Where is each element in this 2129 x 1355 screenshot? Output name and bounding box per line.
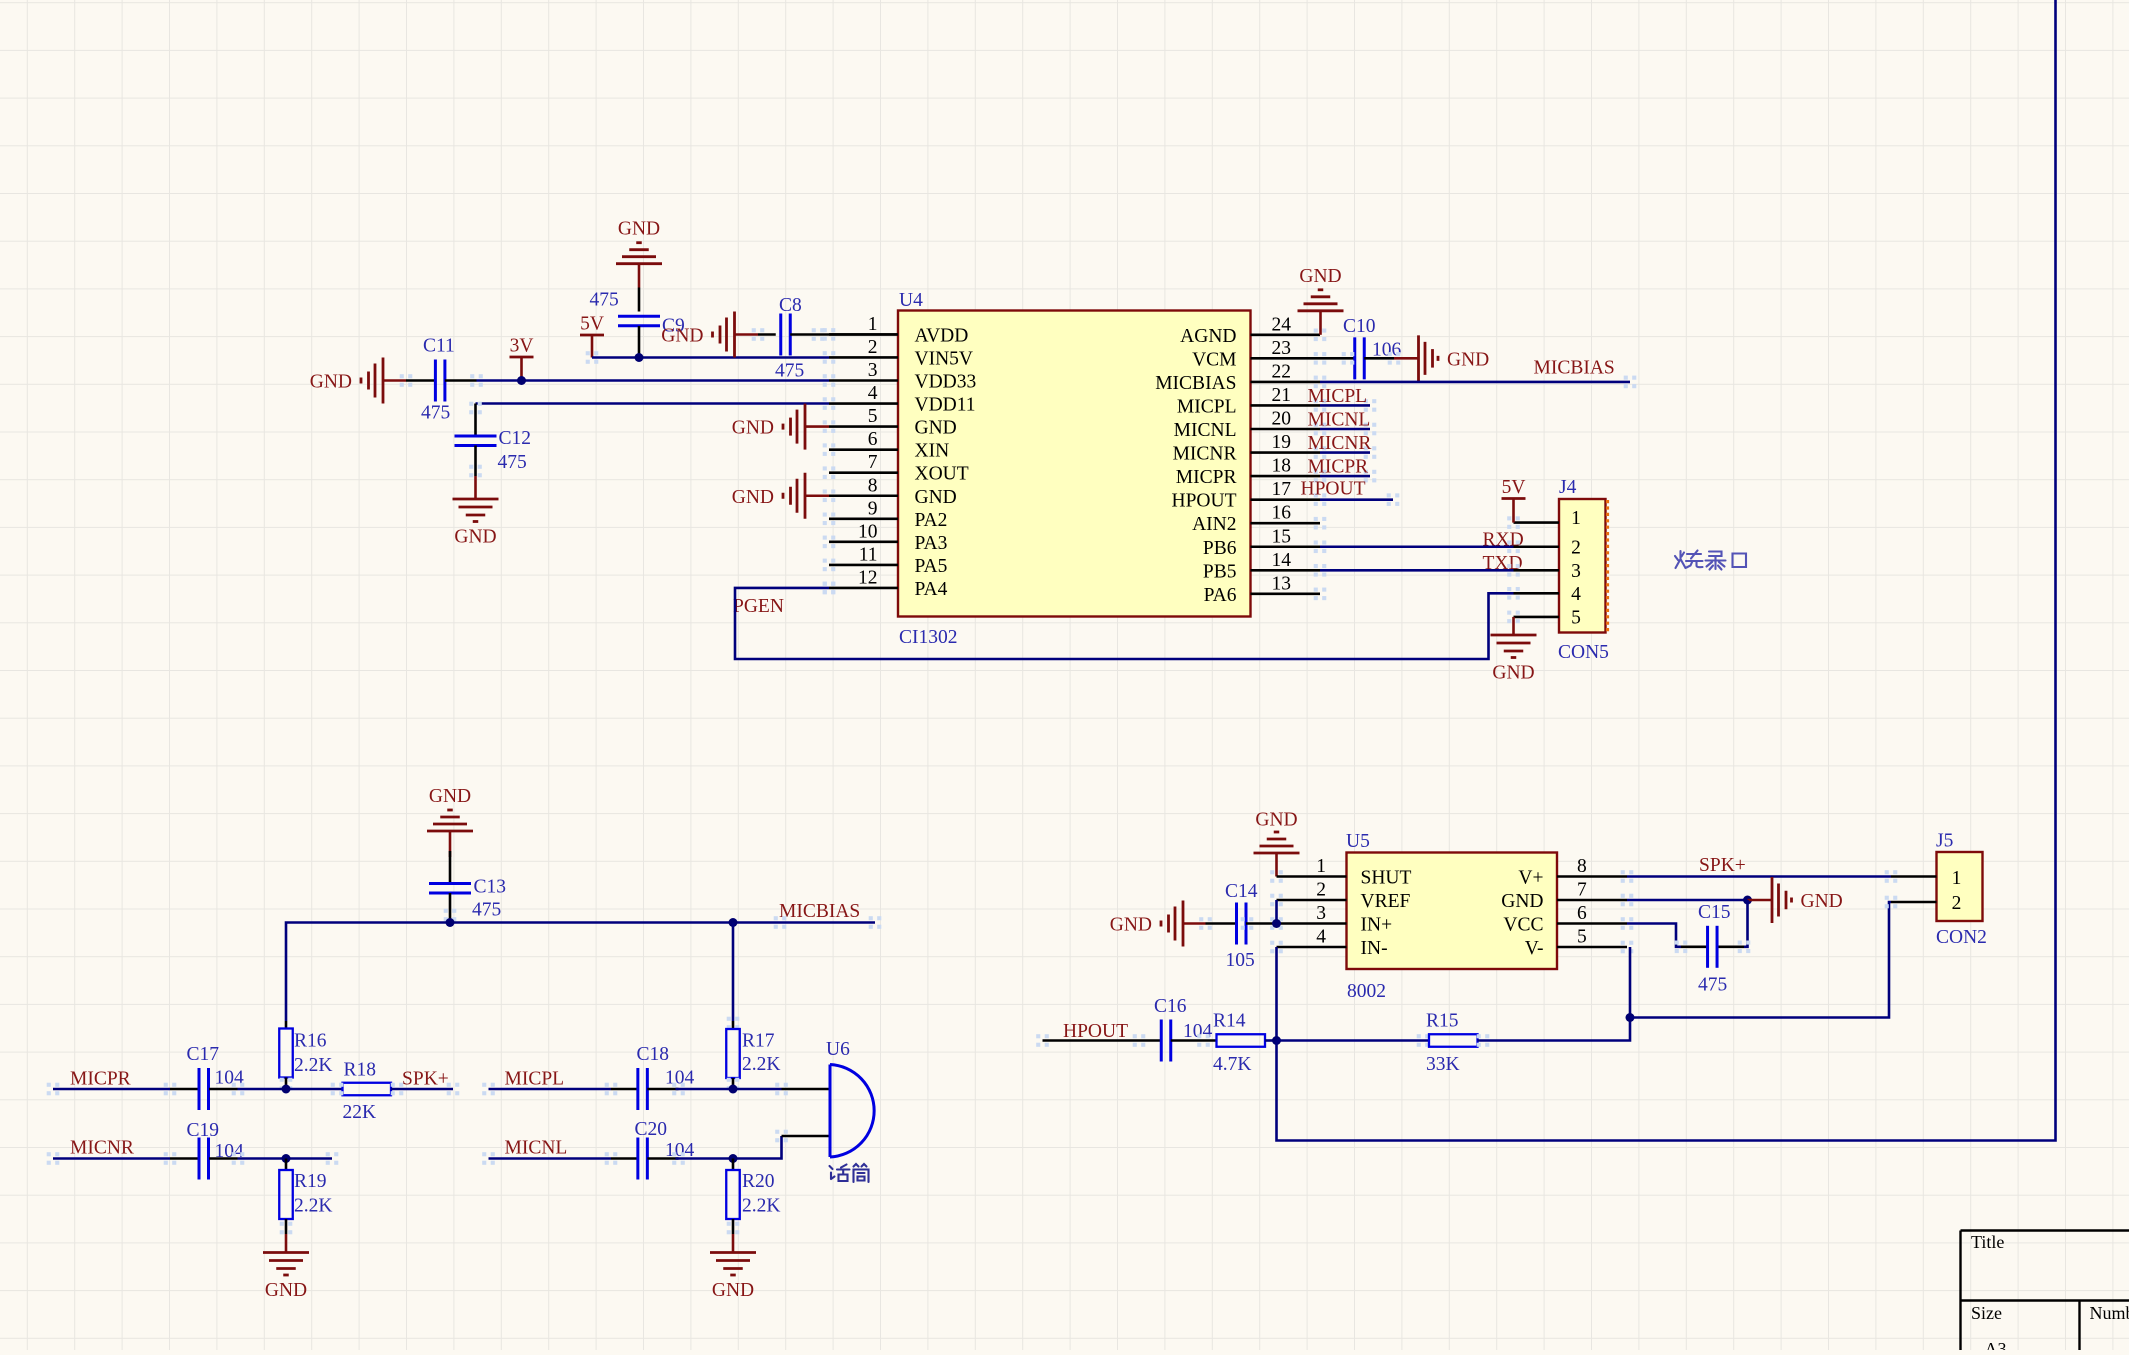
svg-text:MICNL: MICNL	[1174, 420, 1237, 441]
svg-text:GND: GND	[732, 418, 774, 439]
wire GND node to C15	[1717, 900, 1747, 947]
wire C16 to R14	[1171, 1034, 1217, 1047]
svg-text:475: 475	[775, 361, 804, 382]
svg-text:CI1302: CI1302	[899, 627, 958, 648]
ground GND (below C12)	[453, 476, 499, 548]
svg-text:VIN5V: VIN5V	[915, 348, 974, 369]
svg-text:7: 7	[868, 452, 878, 473]
svg-text:MICNR: MICNR	[70, 1138, 134, 1159]
svg-text:MICNL: MICNL	[1308, 410, 1371, 431]
ground GND (U4 pin5)	[732, 404, 829, 450]
junction MICNL/R20	[729, 1154, 738, 1163]
svg-text:CON5: CON5	[1558, 642, 1609, 663]
net label HPOUT (U4)	[1301, 479, 1366, 500]
net label MICPL	[1308, 386, 1368, 407]
svg-text:HPOUT: HPOUT	[1171, 491, 1236, 512]
svg-text:VCM: VCM	[1192, 349, 1236, 370]
svg-text:GND: GND	[1501, 891, 1543, 912]
svg-text:PGEN: PGEN	[733, 596, 784, 617]
svg-text:2: 2	[1952, 893, 1962, 914]
wire GND net (U5 pin7)	[1627, 899, 1748, 902]
text U6 comment (hanzi)	[830, 1164, 869, 1182]
wire R19 to ground	[280, 1219, 293, 1234]
svg-text:2.2K: 2.2K	[294, 1055, 332, 1076]
wire R17 to MICPL	[727, 1078, 740, 1091]
svg-text:AGND: AGND	[1180, 326, 1236, 347]
ground GND (U4 pin8)	[732, 473, 829, 519]
wire R14 to junction	[1265, 1039, 1277, 1042]
svg-text:GND: GND	[454, 527, 496, 548]
power port 5V (C9 rail)	[580, 314, 604, 358]
svg-text:GND: GND	[1110, 915, 1152, 936]
wire V+ to SPK+	[1627, 875, 1891, 878]
wire C8 to U4 pin1	[752, 328, 898, 341]
svg-text:5V: 5V	[580, 314, 604, 335]
junction U5 GND node	[1743, 896, 1752, 905]
wire MICNR	[47, 1152, 199, 1165]
svg-text:GND: GND	[915, 487, 957, 508]
svg-text:R19: R19	[294, 1171, 327, 1192]
svg-text:13: 13	[1272, 573, 1292, 594]
wire C14 to IN+	[1199, 917, 1276, 930]
svg-text:V+: V+	[1518, 868, 1543, 889]
svg-text:3V: 3V	[510, 336, 534, 357]
capacitor C11	[421, 336, 455, 424]
connector J5 CON2 body	[1936, 831, 1987, 949]
svg-text:GND: GND	[661, 326, 703, 347]
svg-text:2.2K: 2.2K	[742, 1196, 780, 1217]
svg-text:C19: C19	[187, 1120, 220, 1141]
svg-text:PA3: PA3	[915, 533, 948, 554]
svg-text:C18: C18	[637, 1044, 670, 1065]
ground GND (C8 left)	[661, 312, 758, 358]
svg-text:MICPR: MICPR	[1308, 457, 1369, 478]
svg-text:Size: Size	[1971, 1303, 2002, 1323]
capacitor C10	[1343, 316, 1402, 379]
resistor R14	[1213, 1011, 1265, 1076]
wire PGEN net	[735, 582, 1514, 659]
svg-text:GND: GND	[265, 1280, 307, 1301]
svg-text:7: 7	[1577, 880, 1587, 901]
svg-text:MICPL: MICPL	[1177, 396, 1237, 417]
svg-text:PA4: PA4	[915, 579, 948, 600]
net label MICPL	[505, 1069, 565, 1090]
svg-text:19: 19	[1272, 432, 1292, 453]
svg-text:10: 10	[858, 521, 878, 542]
svg-text:IN-: IN-	[1361, 938, 1388, 959]
junction IN+ node	[1272, 919, 1281, 928]
svg-text:4: 4	[1316, 927, 1326, 948]
svg-text:R18: R18	[344, 1060, 377, 1081]
svg-text:15: 15	[1272, 526, 1292, 547]
svg-text:8: 8	[1577, 856, 1587, 877]
svg-text:9: 9	[868, 498, 878, 519]
wire C18 to U6	[647, 1083, 781, 1096]
svg-text:HPOUT: HPOUT	[1301, 479, 1366, 500]
ground GND (AGND pin24)	[1298, 266, 1344, 335]
svg-text:GND: GND	[429, 786, 471, 807]
svg-text:MICNR: MICNR	[1173, 444, 1237, 465]
svg-text:4: 4	[868, 383, 878, 404]
wire junction to R15	[1277, 1034, 1430, 1047]
wire TXD net	[1320, 569, 1514, 572]
op-amp U4 CI1302 body	[898, 290, 1251, 648]
resistor R19	[279, 1159, 332, 1220]
svg-text:R16: R16	[294, 1031, 327, 1052]
svg-text:23: 23	[1272, 338, 1292, 359]
svg-text:MICPL: MICPL	[1308, 386, 1368, 407]
resistor R16	[279, 1029, 332, 1078]
capacitor C14	[1225, 881, 1258, 971]
wire rail to R17	[727, 923, 740, 1030]
svg-text:22K: 22K	[343, 1102, 377, 1123]
power port 3V	[510, 336, 534, 381]
wire C12 to ground	[469, 446, 482, 478]
svg-text:AVDD: AVDD	[915, 325, 969, 346]
svg-text:1: 1	[1952, 868, 1962, 889]
junction R17-rail	[729, 918, 738, 927]
capacitor C8	[775, 295, 804, 382]
wire C11 to U4 pin3	[400, 374, 829, 387]
wire IN- net vertical	[1275, 947, 1278, 1041]
net label MICPR	[70, 1069, 131, 1090]
svg-text:PB5: PB5	[1203, 561, 1237, 582]
svg-text:CON2: CON2	[1936, 927, 1987, 948]
svg-text:SPK+: SPK+	[402, 1069, 449, 1090]
ground GND (below R20)	[710, 1234, 756, 1301]
wire R15 to V- riser	[1477, 947, 1630, 1047]
capacitor C15	[1698, 902, 1731, 996]
svg-text:11: 11	[859, 544, 878, 565]
svg-text:VREF: VREF	[1361, 891, 1411, 912]
svg-text:MICPL: MICPL	[505, 1069, 565, 1090]
svg-text:GND: GND	[1801, 891, 1843, 912]
ground GND (above C13)	[427, 786, 473, 884]
pin U6 input 2	[775, 1130, 830, 1143]
wire 5V rail to U4 pin2	[586, 351, 829, 364]
svg-text:2.2K: 2.2K	[742, 1054, 780, 1075]
microphone U6 body	[826, 1039, 874, 1157]
wire C17 to junction	[209, 1083, 343, 1096]
ground GND (right of C10)	[1394, 335, 1489, 381]
svg-text:1: 1	[868, 314, 878, 335]
junction V- feedback	[1626, 1013, 1635, 1022]
svg-text:A3: A3	[1985, 1339, 2007, 1350]
U5 left pins 1-4	[1270, 856, 1411, 959]
capacitor C19	[187, 1120, 245, 1180]
svg-text:20: 20	[1272, 409, 1292, 430]
svg-text:17: 17	[1272, 479, 1292, 500]
svg-text:V-: V-	[1525, 938, 1544, 959]
wire MICBIAS net	[1320, 376, 1636, 389]
svg-text:GND: GND	[1255, 810, 1297, 831]
svg-text:4.7K: 4.7K	[1213, 1054, 1251, 1075]
svg-text:2: 2	[1316, 880, 1326, 901]
svg-text:VDD33: VDD33	[915, 372, 977, 393]
wire RXD net	[1320, 545, 1514, 548]
svg-text:2.2K: 2.2K	[294, 1196, 332, 1217]
junction MICPR/R16	[282, 1085, 291, 1094]
svg-text:MICNR: MICNR	[1308, 433, 1372, 454]
svg-text:MICPR: MICPR	[1176, 467, 1237, 488]
J5 pin 1	[1885, 870, 1937, 883]
svg-text:C14: C14	[1225, 881, 1258, 902]
svg-text:5: 5	[868, 406, 878, 427]
svg-text:PB6: PB6	[1203, 538, 1237, 559]
junction C13-rail	[446, 918, 455, 927]
resistor R15	[1426, 1011, 1478, 1076]
wire MICNL net	[1320, 423, 1376, 436]
net label MICNR	[1308, 433, 1372, 454]
svg-text:AIN2: AIN2	[1192, 514, 1236, 535]
svg-text:21: 21	[1272, 385, 1292, 406]
svg-text:VCC: VCC	[1503, 915, 1543, 936]
svg-text:PA5: PA5	[915, 556, 948, 577]
svg-text:18: 18	[1272, 456, 1292, 477]
svg-text:MICPR: MICPR	[70, 1069, 131, 1090]
svg-text:SHUT: SHUT	[1361, 868, 1412, 889]
svg-text:GND: GND	[732, 487, 774, 508]
ground GND (below R19)	[263, 1234, 309, 1301]
U4 left pins 1-12	[823, 314, 977, 600]
svg-text:MICBIAS: MICBIAS	[1155, 373, 1236, 394]
title block	[1961, 1231, 2129, 1355]
svg-text:C12: C12	[499, 428, 532, 449]
net label MICNL	[505, 1138, 568, 1159]
svg-text:24: 24	[1272, 314, 1292, 335]
net label RXD	[1483, 530, 1524, 551]
ground GND (C11 left)	[310, 358, 406, 404]
capacitor C12	[455, 428, 532, 473]
svg-text:MICBIAS: MICBIAS	[1534, 358, 1615, 379]
svg-text:105: 105	[1226, 950, 1255, 971]
junction at C9/5V rail	[635, 353, 644, 362]
svg-text:475: 475	[498, 452, 527, 473]
svg-text:5V: 5V	[1502, 477, 1526, 498]
svg-text:C11: C11	[423, 336, 455, 357]
wire VCM to C10	[1320, 357, 1355, 360]
svg-text:2: 2	[868, 337, 878, 358]
capacitor C18	[637, 1044, 695, 1110]
text port label (hanzi)	[1675, 551, 1746, 570]
svg-text:R14: R14	[1213, 1011, 1246, 1032]
svg-text:C15: C15	[1698, 902, 1731, 923]
svg-text:MICNL: MICNL	[505, 1138, 568, 1159]
svg-text:C8: C8	[779, 295, 802, 316]
net label MICBIAS	[1534, 358, 1615, 379]
svg-text:C13: C13	[474, 877, 507, 898]
wire C10 to ground	[1342, 352, 1401, 365]
J4 pins 1-5	[1507, 516, 1559, 623]
wire VREF to IN+	[1275, 900, 1278, 924]
svg-text:GND: GND	[310, 372, 352, 393]
svg-text:Number: Number	[2090, 1303, 2129, 1323]
svg-text:22: 22	[1272, 361, 1292, 382]
ground GND (C14 left)	[1110, 901, 1206, 947]
svg-text:GND: GND	[1492, 663, 1534, 684]
wire C8 left	[758, 333, 776, 336]
svg-text:2: 2	[1571, 537, 1581, 558]
capacitor C17	[187, 1044, 245, 1110]
capacitor C20	[635, 1119, 695, 1180]
svg-text:16: 16	[1272, 503, 1292, 524]
U5 right pins 8-5	[1501, 856, 1633, 959]
wire R20 to ground	[727, 1219, 740, 1234]
svg-text:SPK+: SPK+	[1699, 855, 1746, 876]
wire R18 to SPK+	[331, 1083, 460, 1096]
svg-text:XOUT: XOUT	[915, 464, 969, 485]
wire GND to C14	[1206, 922, 1237, 925]
resistor R18	[343, 1060, 392, 1124]
svg-text:C20: C20	[635, 1119, 668, 1140]
svg-text:475: 475	[472, 900, 501, 921]
wire HPOUT net (U4)	[1320, 493, 1399, 506]
svg-text:J4: J4	[1559, 477, 1577, 498]
svg-text:GND: GND	[1299, 266, 1341, 287]
svg-text:475: 475	[589, 290, 618, 311]
wire C13 to MICBIAS rail	[444, 893, 457, 923]
wire MICPR	[47, 1083, 199, 1096]
wire feedback to J5 pin2	[1630, 902, 1891, 1018]
ground GND (right of U5)	[1748, 877, 1843, 923]
wire IN- to bottom rail	[1277, 0, 2056, 1141]
svg-text:R17: R17	[742, 1031, 775, 1052]
svg-text:104: 104	[665, 1068, 695, 1089]
wire MICNL	[482, 1152, 638, 1165]
resistor R17	[726, 1029, 780, 1078]
ground GND (top of C9)	[616, 219, 662, 312]
net label MICNL	[1308, 410, 1371, 431]
svg-text:U6: U6	[826, 1039, 850, 1060]
net label TXD	[1483, 553, 1523, 574]
wire C15 right stub	[1738, 941, 1751, 954]
svg-text:1: 1	[1571, 508, 1581, 529]
wire C20 to U6 elbow	[647, 1136, 781, 1165]
svg-text:GND: GND	[712, 1280, 754, 1301]
svg-text:IN+: IN+	[1361, 915, 1393, 936]
svg-text:MICBIAS: MICBIAS	[779, 901, 860, 922]
svg-text:GND: GND	[1447, 349, 1489, 370]
svg-text:C16: C16	[1154, 996, 1187, 1017]
J5 pin 2	[1885, 896, 1937, 909]
svg-text:475: 475	[1698, 975, 1727, 996]
wire VDD11 net	[469, 402, 829, 436]
wire MICPL net	[1320, 399, 1376, 412]
svg-text:HPOUT: HPOUT	[1063, 1021, 1128, 1042]
ground GND (J4 pin5)	[1491, 617, 1537, 684]
net label SPK+ (R18)	[402, 1069, 449, 1090]
wire MICBIAS rail	[286, 916, 881, 1028]
svg-text:14: 14	[1272, 550, 1292, 571]
svg-text:3: 3	[1316, 903, 1326, 924]
junction MICPL/R17	[729, 1085, 738, 1094]
wire VCC to C15	[1627, 924, 1708, 954]
amplifier U5 8002 body	[1346, 831, 1557, 1002]
wire MICPL	[482, 1083, 638, 1096]
wire R16 to MICPR	[280, 1078, 293, 1091]
wire MICPR net	[1320, 470, 1376, 483]
svg-text:PA2: PA2	[915, 510, 948, 531]
svg-text:6: 6	[868, 429, 878, 450]
svg-text:8002: 8002	[1347, 981, 1386, 1002]
net label MICNR	[70, 1138, 134, 1159]
capacitor C16	[1154, 996, 1213, 1062]
svg-text:6: 6	[1577, 903, 1587, 924]
net label HPOUT (bottom)	[1063, 1021, 1128, 1042]
net label PGEN	[733, 596, 784, 617]
svg-text:3: 3	[868, 360, 878, 381]
wire GND to C11	[406, 379, 435, 382]
svg-text:R20: R20	[742, 1171, 775, 1192]
svg-text:1: 1	[1316, 856, 1326, 877]
svg-text:8: 8	[868, 475, 878, 496]
svg-text:4: 4	[1571, 584, 1581, 605]
svg-text:U5: U5	[1346, 831, 1370, 852]
svg-text:GND: GND	[618, 219, 660, 240]
net label SPK+ (V+)	[1699, 855, 1746, 876]
svg-text:U4: U4	[899, 290, 923, 311]
U4 right pins 24-13	[1155, 314, 1326, 606]
junction 3V on VDD33 net	[517, 376, 526, 385]
wire HPOUT to C16	[1036, 1034, 1161, 1047]
svg-text:5: 5	[1571, 607, 1581, 628]
svg-text:12: 12	[858, 567, 878, 588]
svg-text:475: 475	[421, 403, 450, 424]
svg-text:104: 104	[1183, 1021, 1213, 1042]
svg-text:VDD11: VDD11	[915, 395, 976, 416]
svg-text:3: 3	[1571, 561, 1581, 582]
svg-text:C17: C17	[187, 1044, 220, 1065]
svg-text:R15: R15	[1426, 1011, 1459, 1032]
svg-text:PA6: PA6	[1204, 585, 1237, 606]
wire MICNR net	[1320, 446, 1376, 459]
ground GND (U5 pin1)	[1254, 810, 1300, 877]
junction MICNR/R19	[282, 1154, 291, 1163]
pin U6 input 1	[775, 1083, 830, 1096]
net label MICBIAS (rail)	[774, 901, 861, 929]
wire C19 to R19	[209, 1152, 338, 1165]
svg-text:C10: C10	[1343, 316, 1376, 337]
power port 5V (J4)	[1502, 477, 1526, 523]
svg-text:GND: GND	[915, 418, 957, 439]
resistor R20	[726, 1159, 780, 1220]
svg-text:33K: 33K	[1426, 1054, 1460, 1075]
connector J4 CON5 body	[1558, 477, 1609, 663]
svg-text:5: 5	[1577, 927, 1587, 948]
capacitor C13	[429, 877, 506, 921]
svg-text:XIN: XIN	[915, 441, 950, 462]
capacitor C9	[589, 290, 684, 358]
svg-text:104: 104	[215, 1068, 245, 1089]
svg-text:Title: Title	[1971, 1232, 2004, 1252]
svg-text:J5: J5	[1936, 831, 1953, 852]
net label MICPR	[1308, 457, 1369, 478]
junction IN-/R14/R15	[1272, 1036, 1281, 1045]
